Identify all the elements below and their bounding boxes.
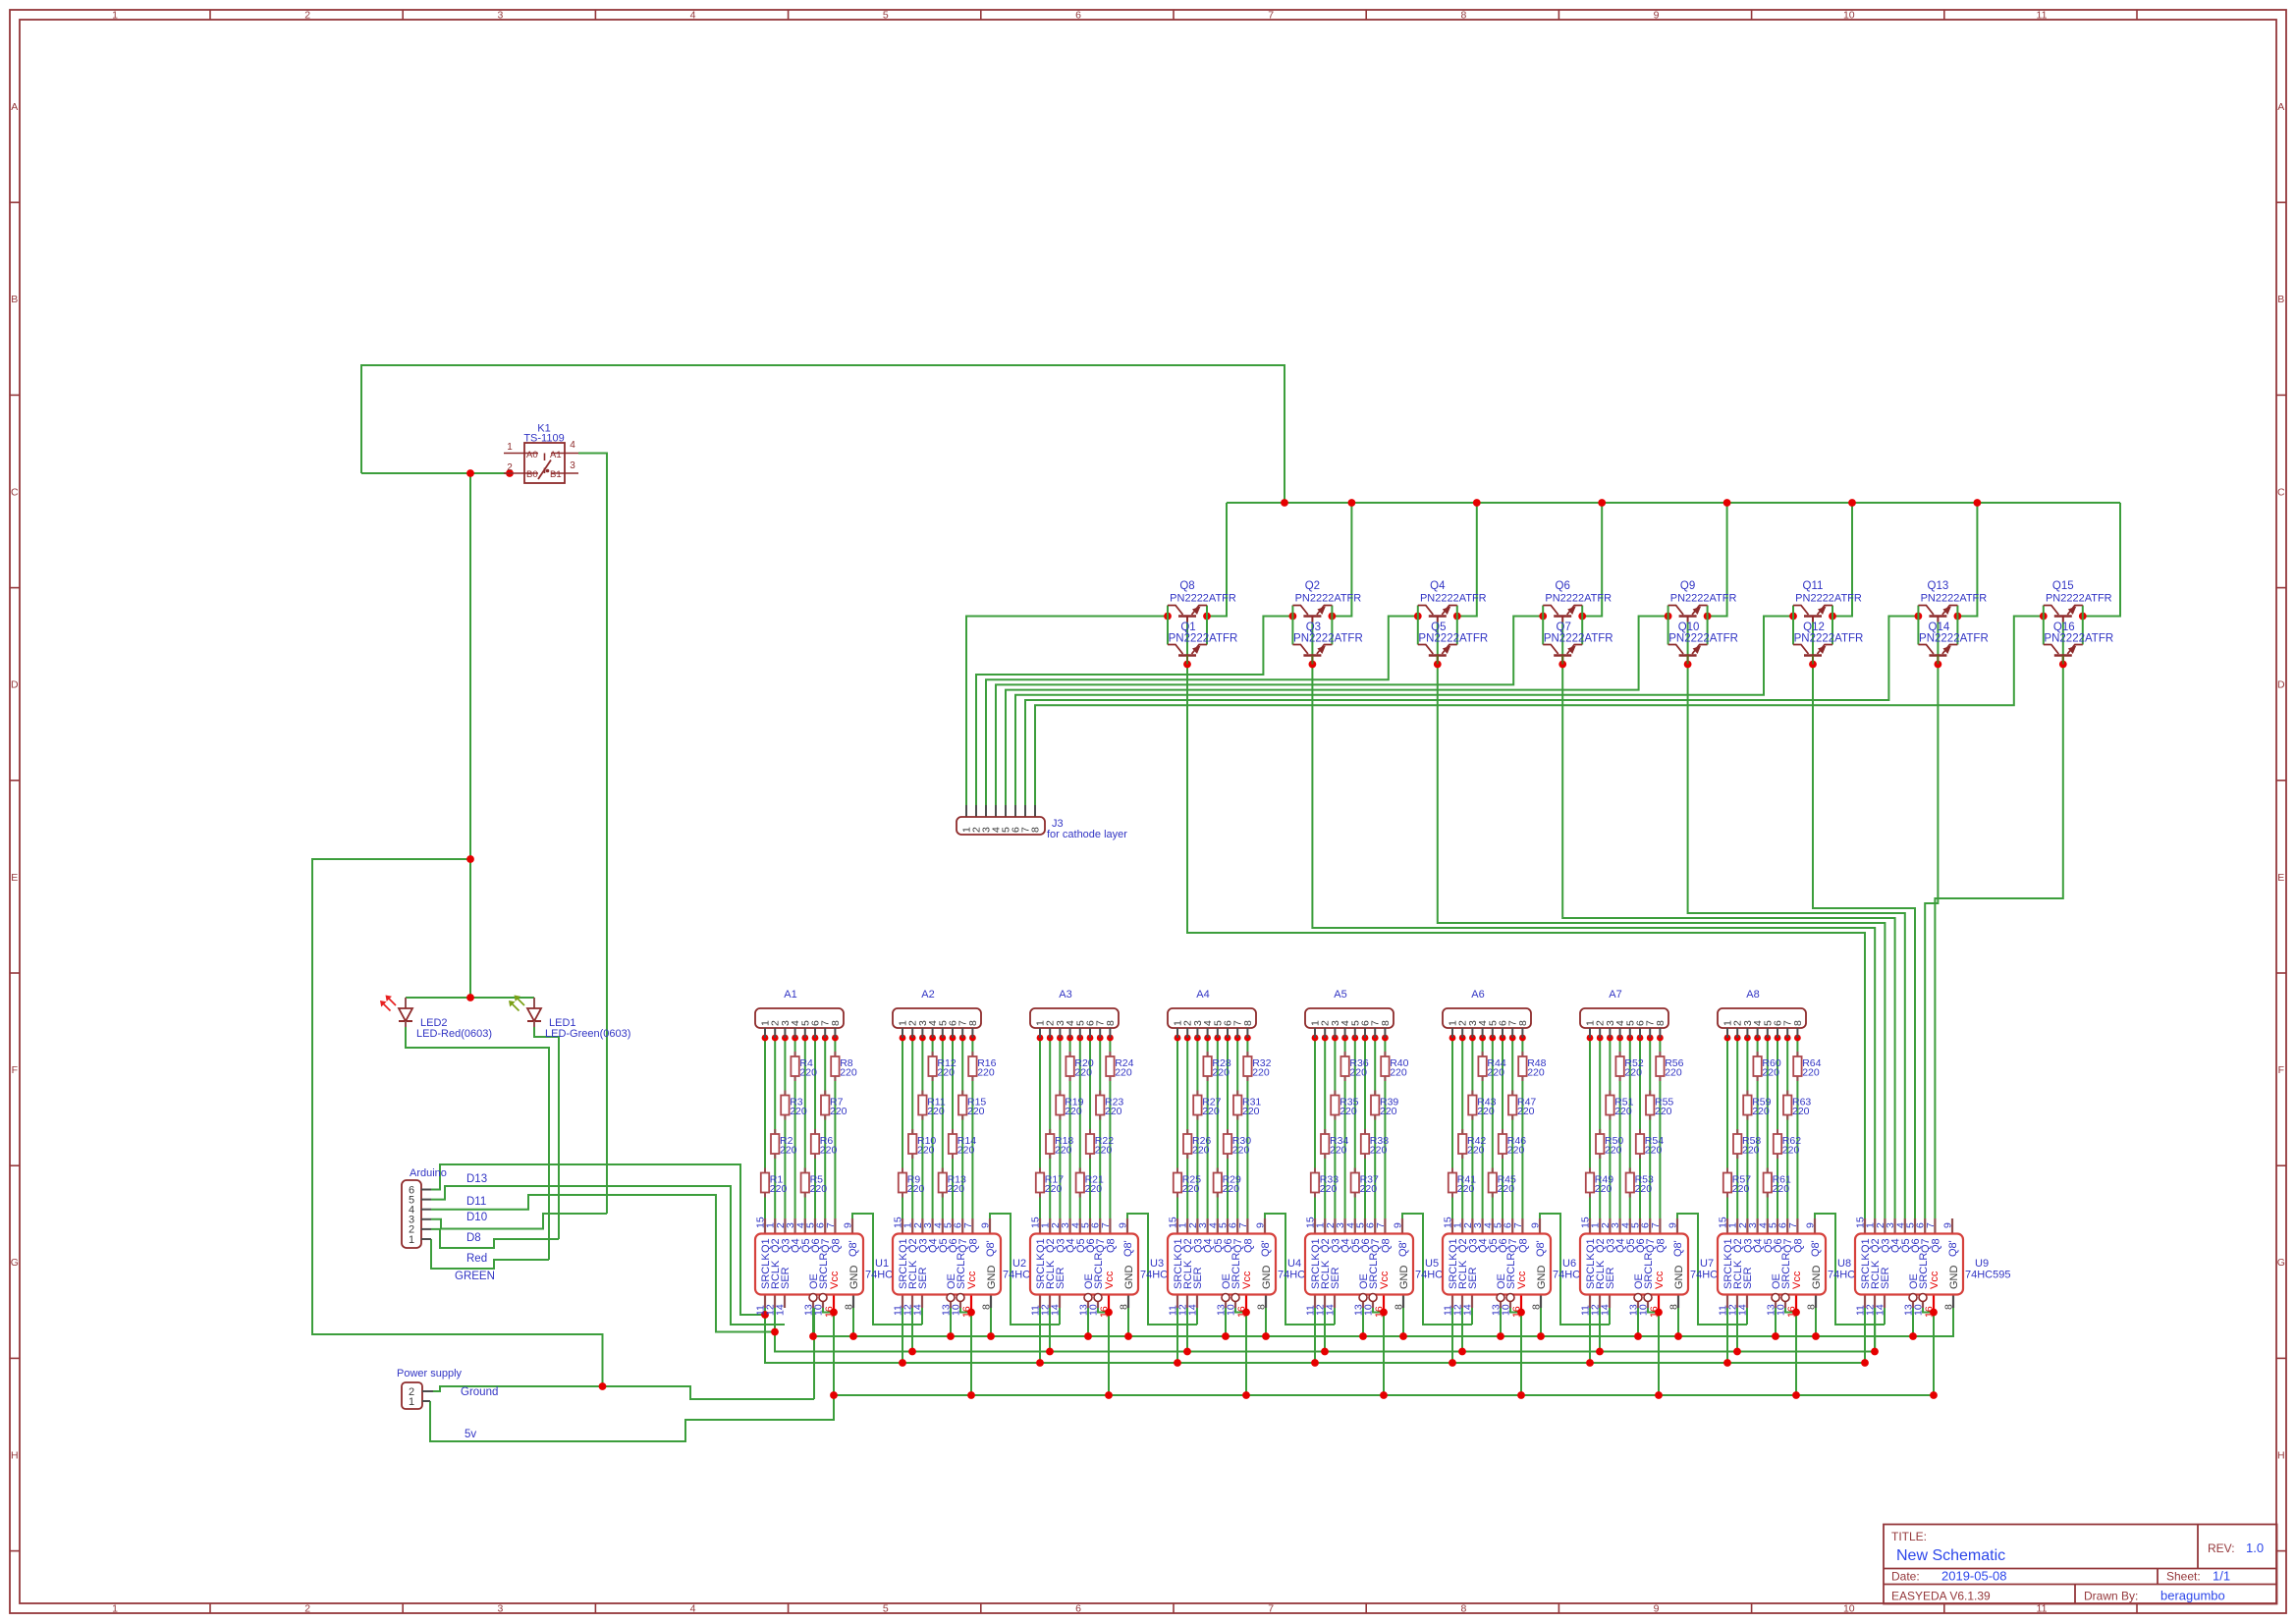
svg-text:Q8: Q8 xyxy=(1655,1238,1667,1253)
wire U7 Q8' chain to U8 SER xyxy=(1677,1214,1747,1325)
wire A7 pin5 to U7 Q5 xyxy=(1629,1038,1631,1218)
wire A7 pin1 to U7 Q1 xyxy=(1589,1038,1591,1218)
wire A8 pin5 to U8 Q5 xyxy=(1767,1038,1769,1218)
wire A2 pin5 to U2 Q5 xyxy=(942,1038,944,1218)
wire A3 pin3 to U3 Q3 xyxy=(1059,1038,1061,1218)
svg-text:220: 220 xyxy=(1095,1145,1113,1157)
svg-text:8: 8 xyxy=(1242,1020,1254,1026)
svg-text:for cathode layer: for cathode layer xyxy=(1047,829,1127,840)
svg-text:Q8: Q8 xyxy=(1792,1238,1804,1253)
svg-text:16: 16 xyxy=(1786,1306,1798,1318)
svg-text:Q8': Q8' xyxy=(1947,1240,1959,1257)
svg-text:GND: GND xyxy=(1536,1266,1548,1290)
wire U7 SRCLK riser xyxy=(1589,1308,1591,1363)
svg-text:9: 9 xyxy=(1393,1222,1404,1228)
svg-text:U6: U6 xyxy=(1562,1258,1576,1270)
svg-text:GND: GND xyxy=(1948,1266,1960,1290)
wire A7 pin8 to U7 Q8 xyxy=(1659,1038,1661,1218)
wire A2 pin4 to U2 Q4 xyxy=(932,1038,934,1218)
svg-text:1: 1 xyxy=(112,10,118,22)
wire A8 pin7 to U8 Q7 xyxy=(1786,1038,1788,1218)
wire U9 SRCLR-Vcc jumper xyxy=(1923,1308,1934,1313)
wire U9 SRCLK riser xyxy=(1864,1308,1866,1363)
svg-text:GND: GND xyxy=(1673,1266,1685,1290)
svg-text:B0: B0 xyxy=(526,469,538,480)
resistor R46 220 xyxy=(1499,1129,1526,1159)
svg-text:SER: SER xyxy=(1467,1267,1479,1289)
svg-text:8: 8 xyxy=(981,1304,993,1310)
svg-text:14: 14 xyxy=(1325,1304,1337,1316)
wire Vcc bus xyxy=(834,1313,1934,1396)
wire U4 SRCLK riser xyxy=(1176,1308,1178,1363)
svg-text:D: D xyxy=(11,679,19,691)
svg-text:220: 220 xyxy=(1339,1106,1357,1117)
resistor R3 220 xyxy=(781,1091,807,1120)
svg-text:220: 220 xyxy=(1330,1145,1347,1157)
svg-text:U5: U5 xyxy=(1425,1258,1439,1270)
wire U6 SRCLR-Vcc jumper xyxy=(1510,1308,1521,1313)
svg-text:220: 220 xyxy=(1085,1183,1103,1195)
wire U1 Q8' chain to U2 SER xyxy=(852,1214,922,1325)
svg-text:9: 9 xyxy=(1805,1222,1817,1228)
svg-text:F: F xyxy=(2278,1064,2284,1076)
svg-text:9: 9 xyxy=(980,1222,992,1228)
svg-text:Q4: Q4 xyxy=(1430,580,1446,592)
resistor R62 220 xyxy=(1774,1129,1801,1159)
wire pair1 emitter to U9 pin xyxy=(1187,622,1865,1219)
svg-text:Drawn By:: Drawn By: xyxy=(2084,1590,2138,1603)
wire A6 pin5 to U6 Q5 xyxy=(1492,1038,1494,1218)
svg-text:220: 220 xyxy=(1517,1106,1535,1117)
svg-text:SER: SER xyxy=(1192,1267,1204,1289)
wire pair8 emitter to U9 pin xyxy=(1935,622,2062,1219)
svg-text:14: 14 xyxy=(1737,1304,1749,1316)
svg-text:Q3: Q3 xyxy=(1306,622,1321,633)
connector A4 xyxy=(1168,989,1256,1038)
wire A7 pin7 to U7 Q7 xyxy=(1649,1038,1651,1218)
svg-text:PN2222ATFR: PN2222ATFR xyxy=(1919,633,1989,645)
wire pair1 rail riser xyxy=(1207,503,1227,617)
IC U2 74HC595 xyxy=(893,1217,1049,1318)
svg-text:E: E xyxy=(11,872,18,884)
svg-text:Q8': Q8' xyxy=(847,1240,859,1257)
svg-text:C: C xyxy=(2277,486,2285,498)
svg-text:2: 2 xyxy=(304,10,310,22)
wire A1 pin7 to U1 Q7 xyxy=(824,1038,826,1218)
svg-text:Q8': Q8' xyxy=(985,1240,997,1257)
resistor R38 220 xyxy=(1361,1129,1389,1159)
svg-text:1/1: 1/1 xyxy=(2213,1569,2230,1584)
svg-text:C: C xyxy=(11,486,19,498)
wire U8 Q8' chain to U9 SER xyxy=(1815,1214,1885,1325)
svg-text:U9: U9 xyxy=(1975,1258,1989,1270)
svg-text:9: 9 xyxy=(1667,1222,1679,1228)
transistor Q7 PN2222ATFR xyxy=(1543,622,1613,665)
wire A2 pin6 to U2 Q6 xyxy=(952,1038,954,1218)
svg-text:5: 5 xyxy=(883,10,889,22)
wire U3 Vcc riser xyxy=(1108,1313,1110,1396)
svg-text:U1: U1 xyxy=(875,1258,889,1270)
svg-text:220: 220 xyxy=(840,1067,857,1079)
svg-text:220: 220 xyxy=(927,1106,945,1117)
svg-text:14: 14 xyxy=(1050,1304,1062,1316)
wire LED2 cathode drop xyxy=(406,1021,549,1260)
wire U5 Q8' chain to U6 SER xyxy=(1402,1214,1472,1325)
svg-text:7: 7 xyxy=(1787,1222,1799,1228)
svg-text:9: 9 xyxy=(1255,1222,1267,1228)
svg-text:Date:: Date: xyxy=(1891,1570,1920,1584)
wire A6 pin7 to U6 Q7 xyxy=(1511,1038,1513,1218)
wire A6 pin1 to U6 Q1 xyxy=(1451,1038,1453,1218)
svg-text:LED-Green(0603): LED-Green(0603) xyxy=(545,1028,630,1040)
wire pair6 emitter to U9 pin xyxy=(1813,622,1915,1219)
svg-text:16: 16 xyxy=(1374,1306,1386,1318)
resistor R56 220 xyxy=(1656,1052,1683,1081)
svg-text:220: 220 xyxy=(1655,1106,1672,1117)
svg-text:14: 14 xyxy=(1187,1304,1199,1316)
svg-text:220: 220 xyxy=(1635,1183,1653,1195)
svg-text:8: 8 xyxy=(830,1020,842,1026)
svg-text:220: 220 xyxy=(1732,1183,1750,1195)
wire U8 Vcc riser xyxy=(1795,1313,1797,1396)
svg-text:220: 220 xyxy=(1467,1145,1485,1157)
wire U5 Vcc riser xyxy=(1383,1313,1385,1396)
svg-text:9: 9 xyxy=(1530,1222,1542,1228)
resistor R4 220 xyxy=(791,1052,817,1081)
svg-text:Vcc: Vcc xyxy=(1241,1271,1253,1289)
svg-text:Vcc: Vcc xyxy=(1104,1271,1116,1289)
svg-text:SER: SER xyxy=(1742,1267,1754,1289)
wire J3 pin1 to pair1 base xyxy=(966,617,1168,806)
svg-text:220: 220 xyxy=(1202,1106,1220,1117)
svg-text:220: 220 xyxy=(799,1067,817,1079)
svg-text:A: A xyxy=(2277,101,2284,113)
wire U7 SER riser xyxy=(1609,1308,1611,1325)
wire pair4 emitter to U9 pin xyxy=(1562,622,1894,1219)
wire pair5 rail riser xyxy=(1708,503,1727,617)
resistor R14 220 xyxy=(949,1129,976,1159)
svg-text:7: 7 xyxy=(1268,1603,1274,1615)
wire A4 pin5 to U4 Q5 xyxy=(1217,1038,1219,1218)
svg-text:Vcc: Vcc xyxy=(1516,1271,1528,1289)
transistor Q6 PN2222ATFR xyxy=(1543,580,1612,645)
svg-text:11: 11 xyxy=(2037,10,2048,22)
svg-text:8: 8 xyxy=(1806,1304,1818,1310)
resistor R25 220 xyxy=(1174,1168,1201,1198)
svg-text:B: B xyxy=(11,294,18,305)
svg-text:7: 7 xyxy=(1100,1222,1112,1228)
svg-text:PN2222ATFR: PN2222ATFR xyxy=(1418,633,1488,645)
svg-text:TITLE:: TITLE: xyxy=(1891,1530,1927,1543)
svg-text:2: 2 xyxy=(507,462,513,473)
svg-text:GND: GND xyxy=(986,1266,998,1290)
resistor R15 220 xyxy=(958,1091,986,1120)
resistor R37 220 xyxy=(1351,1168,1379,1198)
wire A4 pin8 to U4 Q8 xyxy=(1246,1038,1248,1218)
resistor R32 220 xyxy=(1243,1052,1271,1081)
wire U5 SRCLR-Vcc jumper xyxy=(1373,1308,1384,1313)
svg-text:220: 220 xyxy=(1223,1183,1240,1195)
svg-text:Vcc: Vcc xyxy=(1929,1271,1941,1289)
svg-text:8: 8 xyxy=(1256,1304,1268,1310)
svg-text:5: 5 xyxy=(883,1603,889,1615)
IC U8 74HC595 xyxy=(1718,1217,1874,1318)
svg-text:Q8: Q8 xyxy=(1105,1238,1117,1253)
svg-text:8: 8 xyxy=(1531,1304,1543,1310)
svg-text:220: 220 xyxy=(1212,1067,1230,1079)
connector Arduino xyxy=(402,1167,447,1248)
resistor R64 220 xyxy=(1793,1052,1821,1081)
svg-text:220: 220 xyxy=(1742,1145,1760,1157)
wire A2 pin1 to U2 Q1 xyxy=(902,1038,903,1218)
resistor R2 220 xyxy=(771,1129,797,1159)
svg-text:1: 1 xyxy=(409,1234,414,1246)
wire J3 pin8 to pair8 base xyxy=(1035,617,2044,806)
resistor R6 220 xyxy=(811,1129,838,1159)
svg-text:D8: D8 xyxy=(466,1232,481,1244)
wire SRCLK bus xyxy=(765,1308,1865,1363)
svg-text:220: 220 xyxy=(1390,1067,1407,1079)
IC U1 74HC595 xyxy=(755,1217,911,1318)
svg-text:E: E xyxy=(2277,872,2284,884)
wire U2 Q8' chain to U3 SER xyxy=(990,1214,1060,1325)
wire A4 pin1 to U4 Q1 xyxy=(1176,1038,1178,1218)
svg-text:220: 220 xyxy=(1360,1183,1378,1195)
svg-text:14: 14 xyxy=(1600,1304,1612,1316)
wire A4 pin7 to U4 Q7 xyxy=(1236,1038,1238,1218)
svg-text:Ground: Ground xyxy=(461,1386,498,1398)
wire U9 GND riser xyxy=(1952,1308,1954,1336)
svg-text:F: F xyxy=(12,1064,18,1076)
svg-text:220: 220 xyxy=(1320,1183,1338,1195)
transistor Q5 PN2222ATFR xyxy=(1418,622,1488,665)
svg-text:220: 220 xyxy=(780,1145,797,1157)
svg-text:U4: U4 xyxy=(1287,1258,1301,1270)
svg-text:Vcc: Vcc xyxy=(1379,1271,1391,1289)
svg-text:7: 7 xyxy=(962,1222,974,1228)
transistor Q1 PN2222ATFR xyxy=(1168,622,1237,665)
wire U6 OE riser xyxy=(1500,1308,1502,1336)
svg-text:3: 3 xyxy=(570,460,575,471)
resistor R19 220 xyxy=(1056,1091,1083,1120)
svg-text:9: 9 xyxy=(1118,1222,1129,1228)
svg-text:Q8: Q8 xyxy=(967,1238,979,1253)
svg-text:220: 220 xyxy=(977,1067,995,1079)
svg-text:220: 220 xyxy=(957,1145,975,1157)
wire Arduino D13 to U1 SRCLK xyxy=(431,1164,765,1315)
connector A6 xyxy=(1443,989,1531,1038)
wire A1 pin4 to U1 Q4 xyxy=(794,1038,796,1218)
svg-text:220: 220 xyxy=(1115,1067,1132,1079)
wire U5 GND riser xyxy=(1402,1308,1404,1336)
resistor R29 220 xyxy=(1214,1168,1241,1198)
svg-text:220: 220 xyxy=(1645,1145,1663,1157)
svg-text:4: 4 xyxy=(570,440,575,451)
wire pair7 rail riser xyxy=(1957,503,1977,617)
svg-text:1.0: 1.0 xyxy=(2246,1541,2264,1555)
wire pair7 emitter to U9 pin xyxy=(1925,622,1938,1219)
wire A5 pin7 to U5 Q7 xyxy=(1374,1038,1376,1218)
wire U4 SER riser xyxy=(1196,1308,1198,1325)
svg-text:PN2222ATFR: PN2222ATFR xyxy=(1545,593,1612,605)
svg-text:4: 4 xyxy=(690,10,696,22)
resistor R24 220 xyxy=(1106,1052,1133,1081)
wire A6 pin2 to U6 Q2 xyxy=(1461,1038,1463,1218)
IC U7 74HC595 xyxy=(1580,1217,1736,1318)
svg-text:220: 220 xyxy=(790,1106,807,1117)
resistor R21 220 xyxy=(1076,1168,1104,1198)
svg-text:220: 220 xyxy=(1182,1183,1200,1195)
svg-text:Q8: Q8 xyxy=(1179,580,1194,592)
resistor R51 220 xyxy=(1606,1091,1633,1120)
resistor R35 220 xyxy=(1331,1091,1358,1120)
svg-text:Q8: Q8 xyxy=(1930,1238,1941,1253)
resistor R48 220 xyxy=(1518,1052,1546,1081)
svg-text:A3: A3 xyxy=(1059,989,1071,1001)
svg-text:8: 8 xyxy=(1517,1020,1529,1026)
svg-text:Sheet:: Sheet: xyxy=(2166,1570,2201,1584)
wire switch B0 to LED/rail net top loop xyxy=(361,365,1285,503)
resistor R7 220 xyxy=(821,1091,847,1120)
wire U3 SRCLR-Vcc jumper xyxy=(1098,1308,1109,1313)
wire pair6 rail riser xyxy=(1832,503,1852,617)
wire Arduino D11 to U1 SER xyxy=(431,1186,785,1325)
wire A1 pin6 to U1 Q6 xyxy=(814,1038,816,1218)
svg-text:GND: GND xyxy=(1398,1266,1410,1290)
svg-text:GREEN: GREEN xyxy=(455,1271,495,1282)
svg-text:PN2222ATFR: PN2222ATFR xyxy=(1420,593,1487,605)
resistor R49 220 xyxy=(1586,1168,1613,1198)
LED LED2 LED-Red(0603) xyxy=(380,996,492,1041)
svg-text:Q8': Q8' xyxy=(1122,1240,1134,1257)
wire A4 pin4 to U4 Q4 xyxy=(1207,1038,1209,1218)
svg-text:B: B xyxy=(2277,294,2284,305)
wire U9 Vcc riser xyxy=(1933,1313,1935,1396)
connector Power supply xyxy=(397,1368,463,1409)
svg-text:220: 220 xyxy=(1477,1106,1495,1117)
connector J3 for cathode layer xyxy=(957,805,1127,840)
wire U1 SRCLK riser xyxy=(764,1308,766,1363)
wire LED anode riser xyxy=(469,473,471,998)
svg-text:Q13: Q13 xyxy=(1928,580,1949,592)
resistor R55 220 xyxy=(1646,1091,1673,1120)
wire A3 pin1 to U3 Q1 xyxy=(1039,1038,1041,1218)
svg-text:Q11: Q11 xyxy=(1803,580,1824,592)
wire U3 RCLK riser xyxy=(1049,1308,1051,1352)
svg-text:SER: SER xyxy=(1055,1267,1066,1289)
wire U4 SRCLR-Vcc jumper xyxy=(1235,1308,1246,1313)
wire U7 Vcc riser xyxy=(1658,1313,1660,1396)
wire U6 SER riser xyxy=(1471,1308,1473,1325)
svg-text:D11: D11 xyxy=(466,1196,486,1208)
svg-text:Q16: Q16 xyxy=(2053,622,2075,633)
svg-text:8: 8 xyxy=(844,1304,855,1310)
svg-text:220: 220 xyxy=(948,1183,965,1195)
wire U8 GND riser xyxy=(1815,1308,1817,1336)
svg-text:PN2222ATFR: PN2222ATFR xyxy=(2046,593,2112,605)
svg-text:220: 220 xyxy=(1242,1106,1260,1117)
svg-text:16: 16 xyxy=(824,1306,836,1318)
IC U5 74HC595 xyxy=(1305,1217,1461,1318)
svg-text:7: 7 xyxy=(1925,1222,1937,1228)
LED LED1 LED-Green(0603) xyxy=(509,996,630,1041)
svg-text:U3: U3 xyxy=(1150,1258,1164,1270)
svg-text:H: H xyxy=(11,1449,19,1461)
wire U6 GND riser xyxy=(1540,1308,1542,1336)
resistor R41 220 xyxy=(1449,1168,1476,1198)
svg-text:A4: A4 xyxy=(1196,989,1209,1001)
wire U5 SER riser xyxy=(1334,1308,1336,1325)
svg-text:220: 220 xyxy=(770,1183,788,1195)
transistor Q10 PN2222ATFR xyxy=(1668,622,1738,665)
svg-text:220: 220 xyxy=(1762,1067,1779,1079)
title block xyxy=(1884,1525,2277,1604)
svg-text:3: 3 xyxy=(497,10,503,22)
wire ground feed from power supply xyxy=(433,1386,814,1399)
wire U2 RCLK riser xyxy=(911,1308,913,1352)
wire J3 pin3 to pair3 base xyxy=(986,617,1418,806)
svg-text:220: 220 xyxy=(1752,1106,1770,1117)
wire A4 pin3 to U4 Q3 xyxy=(1196,1038,1198,1218)
svg-text:220: 220 xyxy=(1380,1106,1397,1117)
wire K1 pin4 / D8 vertical xyxy=(578,454,607,1215)
svg-text:8: 8 xyxy=(1105,1020,1117,1026)
svg-text:A: A xyxy=(11,101,18,113)
svg-text:Q8': Q8' xyxy=(1397,1240,1409,1257)
svg-text:74HC595: 74HC595 xyxy=(1965,1270,2010,1281)
svg-text:PN2222ATFR: PN2222ATFR xyxy=(1795,593,1862,605)
svg-text:1: 1 xyxy=(409,1396,414,1408)
resistor R1 220 xyxy=(761,1168,788,1198)
svg-text:4: 4 xyxy=(690,1603,696,1615)
svg-text:7: 7 xyxy=(1268,10,1274,22)
svg-text:220: 220 xyxy=(1605,1145,1622,1157)
svg-text:220: 220 xyxy=(1349,1067,1367,1079)
wire U8 SRCLR-Vcc jumper xyxy=(1785,1308,1796,1313)
wire A3 pin4 to U3 Q4 xyxy=(1069,1038,1071,1218)
wire A7 pin4 to U7 Q4 xyxy=(1619,1038,1621,1218)
svg-text:7: 7 xyxy=(825,1222,837,1228)
wire pair3 emitter to U9 pin xyxy=(1438,622,1886,1219)
svg-text:220: 220 xyxy=(1507,1145,1525,1157)
transistor Q8 PN2222ATFR xyxy=(1168,580,1236,645)
svg-text:8: 8 xyxy=(1943,1304,1955,1310)
svg-text:220: 220 xyxy=(917,1145,935,1157)
resistor R16 220 xyxy=(968,1052,996,1081)
svg-text:220: 220 xyxy=(1792,1106,1810,1117)
wire Arduino pin1 GREEN to LED xyxy=(431,1239,549,1269)
svg-text:8: 8 xyxy=(1460,10,1466,22)
svg-text:Q5: Q5 xyxy=(1431,622,1446,633)
wire pair3 rail riser xyxy=(1457,503,1477,617)
svg-text:Q12: Q12 xyxy=(1803,622,1825,633)
svg-text:SER: SER xyxy=(1330,1267,1341,1289)
wire U2 OE riser xyxy=(950,1308,952,1336)
wire A2 pin3 to U2 Q3 xyxy=(921,1038,923,1218)
transistor Q2 PN2222ATFR xyxy=(1292,580,1361,645)
svg-text:9: 9 xyxy=(1942,1222,1954,1228)
svg-text:Vcc: Vcc xyxy=(1791,1271,1803,1289)
wire U8 SRCLK riser xyxy=(1726,1308,1728,1363)
svg-text:SER: SER xyxy=(917,1267,929,1289)
wire U2 SRCLR-Vcc jumper xyxy=(960,1308,971,1313)
svg-text:220: 220 xyxy=(1624,1067,1642,1079)
svg-text:A6: A6 xyxy=(1471,989,1484,1001)
svg-text:Q8: Q8 xyxy=(1242,1238,1254,1253)
svg-text:220: 220 xyxy=(1055,1145,1072,1157)
wire A7 pin2 to U7 Q2 xyxy=(1599,1038,1601,1218)
wire U8 SER riser xyxy=(1746,1308,1748,1325)
